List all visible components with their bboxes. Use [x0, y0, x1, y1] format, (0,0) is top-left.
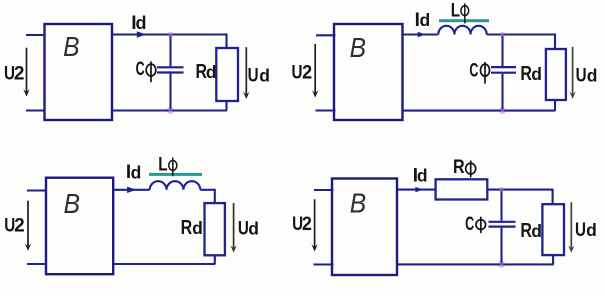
svg-text:B: B: [350, 32, 366, 64]
svg-text:U: U: [248, 64, 259, 86]
svg-text:d: d: [531, 221, 542, 241]
svg-text:d: d: [531, 64, 542, 84]
svg-text:d: d: [131, 162, 142, 182]
svg-text:2: 2: [14, 216, 25, 237]
svg-text:d: d: [192, 218, 203, 238]
svg-text:C: C: [465, 213, 474, 234]
svg-text:U: U: [238, 217, 249, 239]
svg-text:R: R: [453, 156, 465, 178]
svg-text:d: d: [586, 220, 597, 240]
svg-text:L: L: [451, 0, 460, 21]
svg-text:d: d: [136, 13, 147, 33]
svg-text:d: d: [206, 62, 217, 82]
svg-text:B: B: [350, 187, 366, 219]
svg-text:U: U: [292, 61, 303, 83]
svg-text:2: 2: [302, 61, 312, 83]
svg-text:B: B: [64, 188, 80, 220]
svg-text:U: U: [575, 218, 586, 240]
svg-text:d: d: [417, 166, 428, 186]
svg-text:R: R: [181, 216, 193, 238]
svg-text:2: 2: [302, 213, 312, 235]
svg-text:B: B: [63, 30, 79, 62]
svg-text:U: U: [576, 64, 587, 86]
svg-text:C: C: [469, 60, 478, 81]
svg-text:d: d: [248, 219, 259, 239]
svg-text:C: C: [136, 58, 145, 79]
svg-text:R: R: [520, 219, 532, 241]
svg-text:L: L: [158, 153, 167, 175]
svg-text:d: d: [587, 65, 598, 85]
svg-text:2: 2: [14, 63, 25, 84]
svg-text:d: d: [420, 10, 431, 30]
svg-text:d: d: [259, 66, 270, 86]
svg-text:R: R: [520, 63, 532, 85]
